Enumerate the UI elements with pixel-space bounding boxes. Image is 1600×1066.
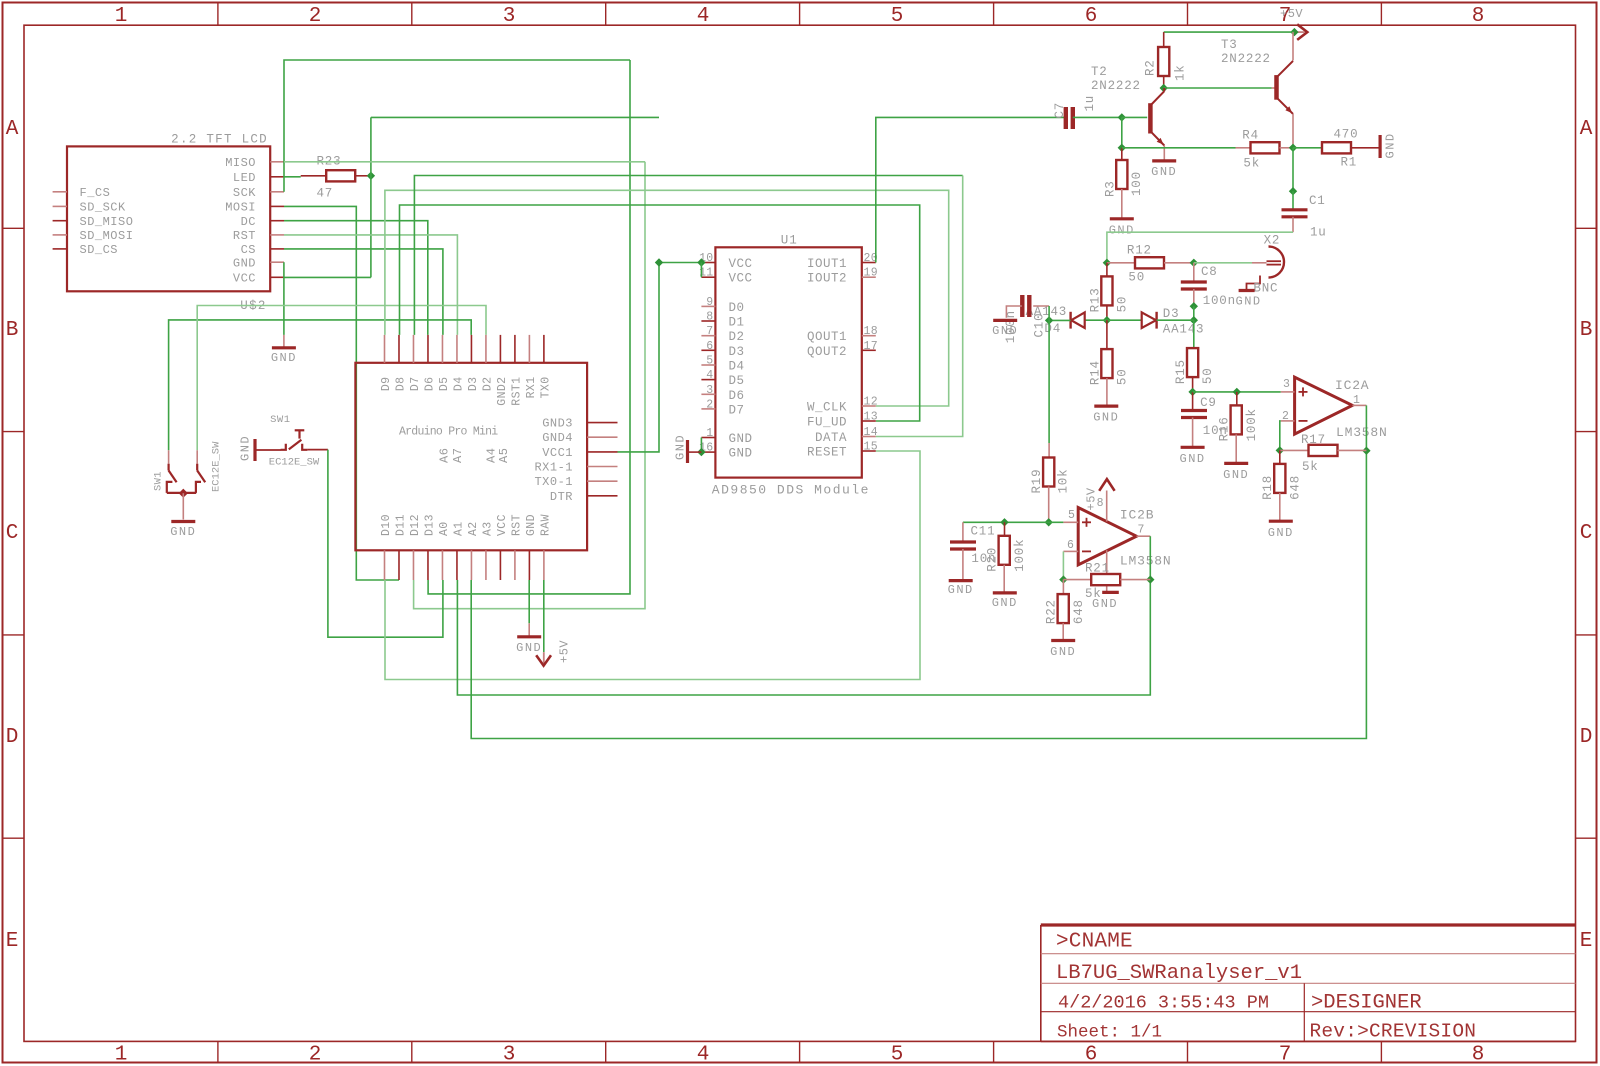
svg-text:DTR: DTR [550, 490, 573, 504]
svg-text:EC12E_SW: EC12E_SW [269, 457, 320, 469]
TFT pin RST [270, 234, 284, 236]
svg-text:D10: D10 [380, 514, 393, 536]
svg-text:Sheet: 1/1: Sheet: 1/1 [1057, 1023, 1162, 1043]
U1 pin 17 QOUT2 [862, 349, 876, 351]
wire MISO net (TFT MISO - D12) [284, 161, 645, 163]
svg-text:VCC1: VCC1 [542, 446, 573, 460]
junction R20 top [1000, 518, 1008, 526]
wire VCC1 - U1 VCC [618, 263, 660, 452]
wire Arduino GND down [528, 580, 530, 623]
svg-text:GND4: GND4 [542, 431, 573, 445]
TFT pin VCC [270, 276, 284, 278]
U1 pin 15 RESET [862, 450, 876, 452]
module U$2 2.2 TFT LCD box [67, 146, 270, 291]
wire VCC net top horizontal [371, 116, 659, 118]
svg-text:C7: C7 [1053, 102, 1067, 119]
frame row ticks right [1576, 227, 1597, 229]
wire D9 - U1 W_CLK [385, 190, 949, 406]
junction R21 left [1059, 575, 1067, 583]
svg-text:SD_SCK: SD_SCK [80, 201, 127, 215]
Arduino pin A3 [485, 550, 487, 580]
svg-text:2: 2 [309, 5, 322, 28]
svg-text:VCC: VCC [729, 272, 753, 286]
wire D10 - U1 RESET [385, 451, 920, 680]
svg-text:RX1: RX1 [525, 377, 538, 399]
svg-text:+5V: +5V [558, 640, 572, 663]
svg-text:Rev:>CREVISION: Rev:>CREVISION [1310, 1021, 1477, 1043]
junction R16 top [1233, 388, 1241, 396]
svg-text:5k: 5k [1302, 460, 1319, 474]
svg-text:EC12E_SW: EC12E_SW [211, 441, 223, 492]
wire D3 to C8 node [1157, 319, 1194, 321]
wire T3 emitter node down to C1 [1292, 148, 1294, 191]
wire U1 pin10 to pin11 [700, 263, 702, 278]
Arduino pin D5 [441, 335, 443, 363]
svg-text:TX0: TX0 [539, 377, 552, 399]
Arduino pin TX0 [543, 335, 545, 363]
svg-text:R17: R17 [1301, 433, 1326, 447]
svg-text:1: 1 [115, 5, 128, 28]
svg-text:3: 3 [706, 384, 713, 397]
svg-text:TX0-1: TX0-1 [534, 475, 573, 489]
svg-text:GND: GND [1236, 295, 1262, 309]
junction D3 cathode node [1190, 316, 1198, 324]
svg-text:D7: D7 [409, 377, 422, 392]
U1 pin 18 QOUT1 [862, 335, 876, 337]
svg-text:5: 5 [706, 355, 713, 368]
IC2B pin 6 [1063, 550, 1078, 552]
wire base node to R4 [1122, 147, 1236, 149]
svg-text:B: B [1580, 319, 1593, 342]
junction U1 GND pins [697, 448, 705, 456]
TFT pin DC [270, 220, 284, 222]
svg-text:X2: X2 [1264, 234, 1281, 248]
svg-text:D8: D8 [395, 377, 408, 392]
svg-text:47: 47 [317, 187, 334, 201]
svg-text:D4: D4 [453, 377, 466, 392]
IC2B pin 4 GND [1106, 550, 1108, 592]
junction R23-VCC [367, 172, 375, 180]
svg-text:3: 3 [1283, 378, 1290, 391]
svg-text:100n: 100n [1203, 294, 1236, 308]
TFT pin SD_SCK [53, 205, 67, 207]
capacitor C7 [1064, 107, 1068, 129]
svg-text:R14: R14 [1088, 360, 1102, 385]
resistor R19 [1048, 443, 1050, 458]
svg-text:648: 648 [1288, 475, 1302, 500]
svg-text:D5: D5 [729, 374, 745, 388]
svg-text:C8: C8 [1201, 265, 1218, 279]
junction R19 bottom [1045, 518, 1053, 526]
svg-text:D7: D7 [729, 403, 745, 417]
wire D4 cathode to C10 node [1049, 319, 1071, 321]
svg-text:D9: D9 [380, 377, 393, 392]
svg-text:GND: GND [1384, 132, 1398, 158]
svg-text:GND: GND [1093, 411, 1119, 425]
svg-text:19: 19 [864, 267, 878, 280]
svg-text:>CNAME: >CNAME [1056, 931, 1133, 954]
svg-text:3: 3 [503, 5, 516, 28]
svg-text:U1: U1 [781, 234, 798, 248]
svg-text:E: E [6, 930, 19, 953]
svg-text:2N2222: 2N2222 [1091, 79, 1141, 93]
wire RST net (TFT RST - D4) [284, 235, 457, 335]
wire node to D3 [1107, 319, 1142, 321]
svg-text:17: 17 [864, 340, 878, 353]
svg-text:GND: GND [729, 432, 753, 446]
ground symbol at U1 [688, 451, 702, 453]
svg-text:4/2/2016 3:55:43 PM: 4/2/2016 3:55:43 PM [1058, 993, 1269, 1014]
resistor R4 [1236, 147, 1251, 149]
svg-text:GND2: GND2 [496, 377, 509, 406]
title block outline [1041, 923, 1576, 926]
ground symbol below C11 [949, 579, 973, 582]
svg-text:RST: RST [511, 514, 524, 536]
U1 pin 11 VCC [701, 276, 715, 278]
svg-text:QOUT1: QOUT1 [807, 330, 847, 344]
Arduino pin D6 [427, 335, 429, 363]
wire +5V rail to R2 [1164, 31, 1295, 33]
svg-text:5: 5 [1068, 509, 1075, 522]
wire T3 base [1164, 87, 1272, 89]
wire DC net (TFT DC - D6) [284, 221, 428, 335]
wire U1 VCC junction to pin10 [659, 262, 701, 264]
switch SW1 encoder contacts [168, 450, 170, 463]
svg-text:F_CS: F_CS [80, 186, 111, 200]
Arduino pin D4 [456, 335, 458, 363]
Arduino pin RX1-1 [587, 466, 617, 468]
svg-text:A2: A2 [467, 521, 480, 536]
U1 pin 8 D1 [701, 320, 715, 322]
Arduino pin GND3 [587, 422, 617, 424]
ground symbol below R20 [993, 591, 1017, 594]
Arduino pin RST1 [514, 335, 516, 363]
ground symbol below R18 [1269, 520, 1293, 523]
wire IC2B pin6 down [1062, 551, 1064, 579]
junction R21 right [1146, 575, 1154, 583]
Arduino pin D2 [485, 335, 487, 363]
svg-text:IOUT1: IOUT1 [807, 257, 847, 271]
IC2B pin 5 [1063, 521, 1078, 523]
wire node to D4 anode [1085, 319, 1107, 321]
wire encoder B (SW1 - D2) [197, 306, 486, 451]
resistor R3 [1121, 148, 1123, 160]
svg-text:A7: A7 [451, 448, 465, 463]
wire switch poles to ground node [167, 492, 196, 494]
capacitor C9 [1192, 392, 1194, 410]
resistor R16 [1236, 392, 1238, 406]
diode D4 AA143 [1071, 312, 1085, 328]
U1 pin 14 DATA [862, 436, 876, 438]
junction feedback node A [1276, 446, 1284, 454]
Arduino pin D7 [412, 335, 414, 363]
svg-text:6: 6 [1085, 5, 1098, 28]
svg-text:D3: D3 [1163, 307, 1180, 321]
svg-text:4: 4 [697, 1044, 710, 1066]
wire U1 IOUT1 to C7 [876, 117, 1065, 262]
svg-text:GND3: GND3 [542, 417, 573, 431]
svg-text:6: 6 [706, 340, 713, 353]
capacitor C10 [1020, 295, 1024, 317]
Arduino pin A1 [456, 550, 458, 580]
wire A1 - IC2B output [457, 580, 1150, 695]
Arduino pin DTR [587, 495, 617, 497]
wire IC2B pin7 down [1149, 536, 1151, 579]
Arduino pin A0 [441, 550, 443, 580]
U1 pin 13 FU_UD [862, 420, 876, 422]
IC2B pin 7 output [1137, 535, 1151, 537]
TFT pin CS [270, 248, 284, 250]
svg-text:IC2A: IC2A [1335, 378, 1369, 393]
TFT pin MISO [270, 161, 284, 163]
svg-text:R2: R2 [1144, 59, 1158, 76]
svg-text:SW1: SW1 [270, 414, 290, 426]
+5V supply symbol below Arduino [543, 652, 545, 663]
svg-text:D13: D13 [424, 514, 437, 536]
svg-text:R3: R3 [1103, 180, 1117, 197]
wire D7 - U1 DATA [414, 176, 962, 335]
svg-text:50: 50 [1116, 368, 1130, 385]
svg-text:D12: D12 [409, 514, 422, 536]
IC U1 AD9850 box [715, 247, 861, 477]
resistor R12 [1107, 262, 1135, 264]
ground symbol at BNC [1239, 289, 1255, 292]
svg-text:MISO: MISO [225, 156, 256, 170]
svg-text:14: 14 [864, 426, 878, 439]
wire TFT VCC pin to vertical [284, 276, 371, 278]
wire CS net (TFT CS - D5) [284, 249, 443, 335]
wire C8 to D3 node [1193, 306, 1195, 320]
svg-text:C1: C1 [1309, 194, 1326, 208]
svg-text:R18: R18 [1261, 475, 1275, 500]
svg-text:8: 8 [1472, 1044, 1485, 1066]
wire T3 collector to +5V [1292, 32, 1294, 60]
TFT pin SCK [270, 191, 284, 193]
svg-text:R4: R4 [1242, 129, 1259, 143]
svg-text:GND: GND [729, 447, 753, 461]
svg-text:RST: RST [233, 229, 256, 243]
svg-text:GND: GND [1050, 645, 1076, 659]
ground symbol at push switch [253, 439, 256, 461]
op-amp IC2A LM358N [1295, 377, 1353, 434]
wire D8 - U1 FU_UD [400, 205, 920, 421]
svg-text:D3: D3 [467, 377, 480, 392]
svg-text:13: 13 [864, 411, 878, 424]
svg-text:C10: C10 [1033, 313, 1047, 338]
resistor R17 [1280, 449, 1309, 451]
svg-text:5k: 5k [1243, 157, 1260, 171]
svg-text:470: 470 [1334, 128, 1359, 142]
Arduino pin D13 [427, 550, 429, 580]
Arduino pin RST [514, 550, 516, 580]
title block row divider 3 [1041, 1011, 1576, 1013]
svg-text:T2: T2 [1091, 65, 1108, 79]
junction R12 right - C8 - X2 [1190, 259, 1198, 267]
svg-text:D2: D2 [482, 377, 495, 392]
wire IC2B+ input net [963, 521, 1064, 523]
Arduino pin D9 [384, 335, 386, 363]
IC2A pin 1 output [1352, 404, 1366, 406]
U1 pin 10 VCC [701, 262, 715, 264]
IC2A pin 3 [1281, 391, 1295, 393]
svg-text:VCC: VCC [233, 272, 256, 286]
wire push switch to A0 [328, 450, 443, 638]
svg-text:R1: R1 [1341, 156, 1358, 170]
Arduino pin RAW [543, 550, 545, 580]
Arduino pin VCC1 [587, 451, 617, 453]
svg-text:R22: R22 [1045, 599, 1059, 624]
svg-text:2: 2 [1282, 410, 1289, 423]
svg-text:IOUT2: IOUT2 [807, 272, 847, 286]
svg-text:A0: A0 [438, 521, 451, 536]
svg-text:648: 648 [1072, 599, 1086, 624]
svg-text:GND: GND [1180, 452, 1206, 466]
svg-text:C: C [6, 522, 19, 545]
svg-text:SCK: SCK [233, 186, 256, 200]
svg-text:A6: A6 [437, 448, 451, 463]
svg-text:50: 50 [1201, 367, 1215, 384]
wire encoder A (SW1 - D3) [169, 320, 472, 450]
wire TFT GND down [283, 262, 285, 335]
svg-text:GND: GND [992, 596, 1018, 610]
title block row divider 2 [1041, 982, 1576, 984]
wire C10 node down to R19 [1048, 320, 1050, 443]
svg-text:100k: 100k [1013, 539, 1027, 572]
wire to X2 BNC [1194, 262, 1252, 264]
U1 pin 4 D5 [701, 379, 715, 381]
svg-text:SD_MISO: SD_MISO [80, 215, 134, 229]
ground symbol right of R1 [1378, 135, 1381, 158]
ground symbol below Arduino [528, 623, 530, 636]
svg-text:C11: C11 [971, 525, 996, 539]
svg-text:C: C [1580, 522, 1593, 545]
switch SW1 push button [256, 449, 281, 451]
svg-text:+5V: +5V [1085, 487, 1099, 510]
U1 pin 20 IOUT1 [862, 262, 876, 264]
svg-text:RAW: RAW [539, 514, 552, 536]
capacitor C1 [1292, 191, 1294, 209]
TFT pin LED [270, 176, 284, 178]
junction U1 pin10 [697, 258, 705, 266]
svg-text:RX1-1: RX1-1 [534, 461, 573, 475]
junction C8 bottom [1190, 302, 1198, 310]
svg-text:QOUT2: QOUT2 [807, 345, 847, 359]
TFT pin F_CS [53, 191, 67, 193]
svg-text:D5: D5 [438, 377, 451, 392]
title block column divider [1303, 983, 1305, 1041]
ground symbol at C10 [993, 319, 1017, 322]
resistor R15 [1193, 320, 1195, 348]
resistor R13 [1106, 263, 1108, 277]
Arduino pin GND [528, 550, 530, 580]
svg-text:GND: GND [1109, 224, 1135, 238]
svg-text:DATA: DATA [815, 431, 847, 445]
TFT pin SD_CS [53, 248, 67, 250]
svg-text:7: 7 [1279, 1044, 1292, 1066]
svg-text:2N2222: 2N2222 [1221, 52, 1271, 66]
IC2A pin 2 [1281, 420, 1295, 422]
wire R15 node to IC2A+ [1193, 391, 1281, 393]
svg-text:GND: GND [170, 525, 196, 539]
svg-text:GND: GND [1268, 526, 1294, 540]
svg-text:GND: GND [948, 583, 974, 597]
svg-text:GND: GND [516, 641, 542, 655]
wire base node down to R3 [1121, 117, 1123, 147]
svg-text:W_CLK: W_CLK [807, 401, 847, 415]
TFT pin SD_MOSI [53, 234, 67, 236]
svg-text:2: 2 [706, 398, 713, 411]
Arduino pin RX1 [528, 335, 530, 363]
svg-text:MOSI: MOSI [225, 201, 256, 215]
svg-text:R21: R21 [1085, 562, 1110, 576]
title block row divider 1 [1041, 953, 1576, 955]
Arduino pin VCC [499, 550, 501, 580]
Arduino pin D10 [384, 550, 386, 580]
svg-text:T3: T3 [1221, 38, 1238, 52]
svg-text:R12: R12 [1127, 244, 1152, 258]
svg-text:GND: GND [239, 435, 253, 461]
wire C1 to R12 node [1107, 232, 1293, 263]
junction R12 left node [1103, 259, 1111, 267]
Arduino pin TX0-1 [587, 480, 617, 482]
wire MOSI net (TFT MOSI - D11) [284, 206, 399, 580]
resistor R23 [301, 175, 327, 177]
svg-text:R20: R20 [986, 547, 1000, 572]
svg-text:D: D [6, 726, 19, 749]
svg-text:D0: D0 [729, 301, 745, 315]
wire IC2A output down [1365, 405, 1367, 450]
svg-text:GND: GND [674, 434, 688, 460]
frame column ticks bottom [217, 1041, 219, 1062]
ground symbol below R14 [1094, 405, 1118, 408]
junction U1 VCC net [655, 258, 663, 266]
svg-text:8: 8 [1472, 5, 1485, 28]
transistor T2 2N2222 [1148, 103, 1153, 133]
+5V supply symbol at IC2B [1099, 479, 1114, 491]
diode D3 AA143 [1142, 312, 1156, 328]
svg-text:12: 12 [864, 396, 878, 409]
junction R4-T3 emitter node [1289, 144, 1297, 152]
IC2B pin 8 V+ [1106, 491, 1108, 522]
svg-text:1u: 1u [1083, 95, 1097, 112]
svg-text:D4: D4 [729, 360, 745, 374]
U1 pin 16 GND [701, 451, 715, 453]
Arduino pin A2 [470, 550, 472, 580]
svg-text:6: 6 [1085, 1044, 1098, 1066]
svg-text:100: 100 [1130, 171, 1144, 196]
junction above C1 [1289, 187, 1297, 195]
svg-text:CS: CS [241, 243, 256, 257]
svg-text:IC2B: IC2B [1120, 508, 1154, 523]
svg-text:5: 5 [891, 1044, 904, 1066]
svg-text:15: 15 [864, 441, 878, 454]
wire C7 to T2 base node [1073, 116, 1122, 118]
svg-text:D3: D3 [729, 345, 745, 359]
wire LED to R23 [284, 176, 301, 178]
svg-text:100k: 100k [1245, 408, 1259, 441]
svg-text:E: E [1580, 930, 1593, 953]
svg-text:D6: D6 [424, 377, 437, 392]
frame column ticks top [217, 3, 219, 26]
svg-text:1: 1 [1353, 394, 1360, 407]
svg-text:R19: R19 [1030, 469, 1044, 494]
ground symbol below TFT [283, 335, 285, 348]
capacitor C11 [962, 522, 964, 542]
svg-text:50: 50 [1116, 296, 1130, 313]
svg-text:A: A [6, 118, 19, 141]
svg-text:3: 3 [503, 1044, 516, 1066]
svg-text:D6: D6 [729, 389, 745, 403]
